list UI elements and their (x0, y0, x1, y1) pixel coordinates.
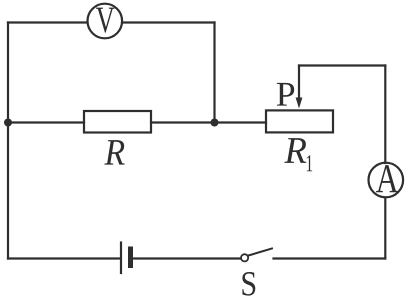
wire left vertical (7, 23, 9, 259)
label R1 subscript 1 (307, 155, 312, 171)
label R (resistor) (104, 140, 124, 165)
wire right vertical lower (384, 198, 386, 259)
label R1 (rheostat) (284, 138, 306, 163)
resistor R body (84, 111, 151, 133)
wire top-right horizontal (122, 21, 215, 23)
switch S lever (248, 249, 272, 256)
switch S pivot circle (241, 254, 248, 261)
battery BT1 short plate (128, 249, 133, 266)
voltmeter V1 circle (88, 4, 123, 39)
wire right vertical upper (384, 66, 386, 164)
wire top-left horizontal (8, 21, 88, 23)
rheostat R1 body (266, 110, 333, 132)
wire right drop to node B (213, 23, 215, 123)
battery BT1 long plate (120, 243, 122, 274)
wire switch to right (274, 257, 386, 259)
wire battery to switch (133, 257, 241, 259)
slider arrowhead P (296, 98, 303, 109)
label V (voltmeter) (96, 8, 115, 33)
label P (slider) (277, 83, 294, 106)
wire slider stem (298, 66, 300, 100)
junction node left (4, 119, 12, 127)
label S (switch) (242, 272, 255, 296)
wire node A to resistor R (8, 121, 84, 123)
label A (ammeter) (376, 165, 398, 192)
wire slider top horizontal (299, 64, 385, 66)
wire resistor R to rheostat R1 (151, 121, 266, 123)
wire bottom-left horizontal (8, 257, 120, 259)
junction node right (211, 119, 219, 127)
ammeter A1 circle (369, 163, 404, 198)
